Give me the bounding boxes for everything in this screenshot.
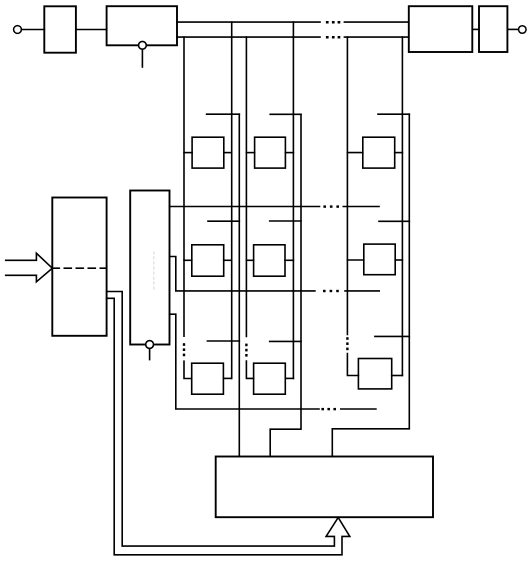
wire C31 left pin: [347, 152, 362, 154]
wire C11 left pin: [184, 152, 192, 154]
wire gate stub row1 col2: [270, 113, 301, 115]
wire gate line G2: [270, 114, 301, 456]
wire column line L3: [346, 37, 348, 334]
wire column line L2: [245, 37, 247, 336]
cell C12: [192, 245, 224, 276]
ellipsis on L3: [346, 337, 348, 350]
wire: [149, 348, 151, 359]
wire: [76, 29, 107, 31]
block U2: [107, 6, 177, 45]
inverter bubble on U6: [146, 341, 154, 349]
wire C33 right pin: [392, 375, 403, 377]
feedback bus with hollow arrow: [107, 292, 350, 555]
block U6: [130, 191, 169, 345]
block U3: [409, 6, 473, 52]
wire gate stub row3 col1: [207, 340, 239, 342]
wire C21 right pin: [285, 152, 293, 154]
wire L1 lower / cell C13 left pin: [184, 361, 192, 378]
cell C33: [358, 359, 391, 389]
wire: [141, 49, 143, 67]
wire L2 lower / cell C23 left pin: [246, 361, 253, 378]
cell C21: [255, 137, 286, 168]
wire gate stub row3 col2: [270, 340, 301, 342]
wire L3 lower / cell C33 left pin: [347, 354, 358, 376]
wire C22 right pin: [285, 259, 293, 261]
wire bus line 2: [177, 36, 409, 38]
wire column line R1: [231, 22, 233, 378]
wire gate line G3: [332, 114, 409, 456]
wire: [472, 28, 479, 30]
block U7: [216, 457, 433, 518]
faint dashed line in U6: [153, 252, 155, 289]
cell C22: [254, 245, 285, 276]
inverter bubble on U2: [139, 41, 147, 49]
wire gate stub row3 col3: [375, 335, 409, 337]
ellipsis on L2: [245, 344, 247, 357]
wire C12 right pin: [224, 259, 232, 261]
wire bus line 1: [177, 21, 409, 23]
output terminal: [519, 26, 527, 34]
ellipsis on row line 2: [323, 290, 339, 292]
cell C13: [192, 363, 224, 394]
wire row line 1: [170, 206, 380, 208]
block U1: [44, 6, 76, 52]
wire: [21, 29, 44, 31]
wire gate stub row1 col3: [378, 113, 409, 115]
wire row line 2: [170, 257, 380, 291]
wire C11 right pin: [224, 152, 232, 154]
wire gate stub row2 col1: [208, 220, 239, 222]
wire column line R3: [401, 37, 403, 375]
ellipsis on bus line 1: [326, 21, 340, 24]
wire C13 right pin: [223, 377, 231, 379]
wire C21 left pin: [246, 152, 254, 154]
wire C22 left pin: [246, 259, 253, 261]
input arrow: [6, 253, 53, 282]
ellipsis on row line 3: [321, 408, 336, 410]
wire C32 right pin: [395, 259, 402, 261]
wire column line L1: [183, 37, 185, 336]
wire gate stub row2 col2: [270, 220, 301, 222]
cell C11: [192, 137, 224, 168]
wire gate stub row1 col1: [207, 113, 240, 115]
wire: [507, 28, 518, 30]
block U5: [52, 198, 106, 336]
wire gate line G1: [238, 114, 240, 456]
ellipsis on row line 1: [323, 205, 339, 207]
wire row line 3: [170, 314, 376, 409]
ellipsis on bus line 2: [326, 36, 340, 39]
block U4: [479, 6, 507, 52]
cell C23: [254, 363, 286, 394]
input terminal: [14, 26, 22, 34]
dashed line in U5: [52, 267, 106, 269]
wire C31 right pin: [395, 152, 403, 154]
cell C32: [364, 244, 395, 275]
cell C31: [363, 137, 395, 168]
wire C32 left pin: [347, 259, 363, 261]
wire gate stub row2 col3: [379, 220, 409, 222]
wire C12 left pin: [184, 259, 192, 261]
wire column line R2: [292, 22, 294, 378]
ellipsis on L1: [183, 343, 185, 356]
wire C23 right pin: [285, 377, 293, 379]
